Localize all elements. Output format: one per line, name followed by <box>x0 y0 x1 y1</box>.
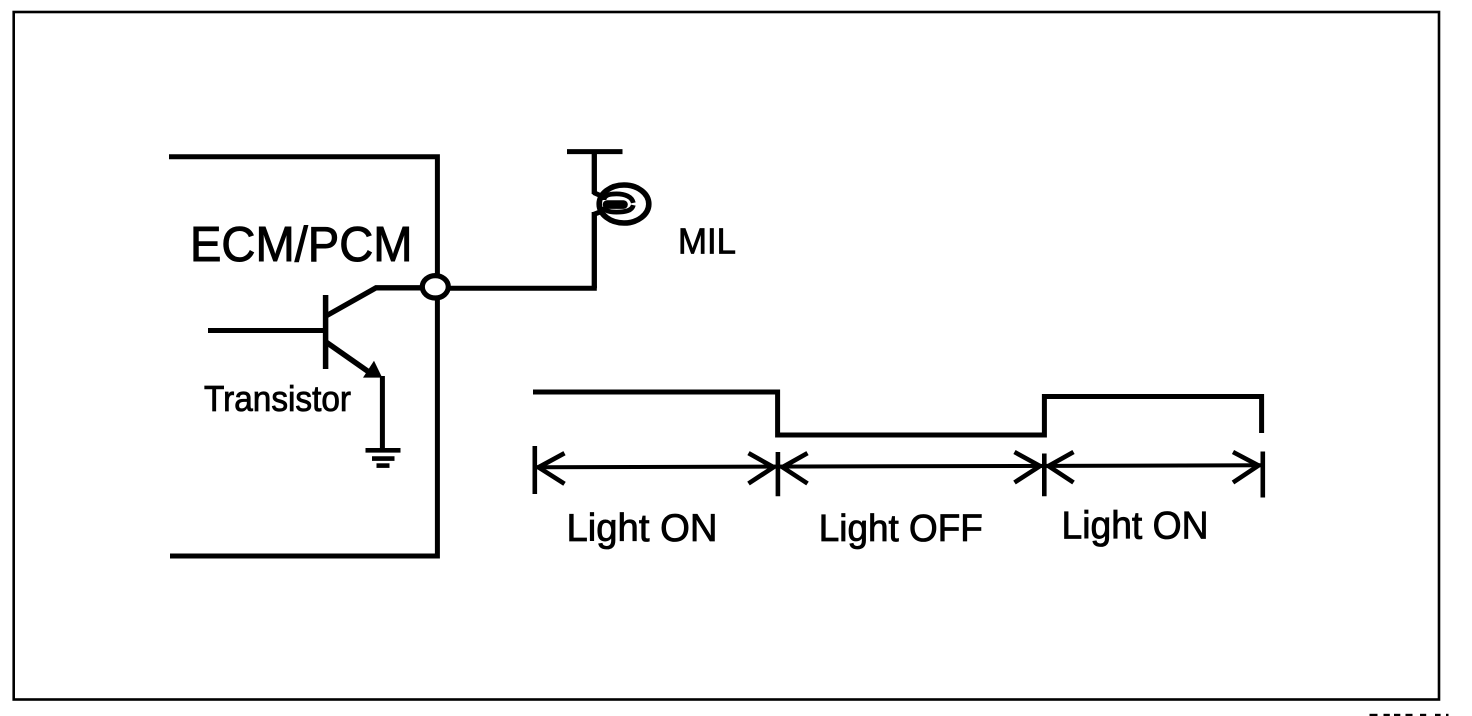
svg-text:Light ON: Light ON <box>567 507 718 550</box>
dimension line <box>536 465 1261 467</box>
wire emitter to ground <box>380 376 385 451</box>
tick 2 <box>776 452 781 496</box>
wire lamp vertical lower <box>592 212 597 288</box>
svg-text:Light OFF: Light OFF <box>819 508 983 550</box>
transistor Q1 emitter arrowhead <box>363 361 382 378</box>
wire lamp vertical upper <box>592 152 597 194</box>
arrowhead pair at tick 2 <box>749 453 774 483</box>
tick 3 <box>1042 454 1047 497</box>
waveform trace <box>533 392 1262 435</box>
wire stub to lamp top-left <box>594 193 603 197</box>
ground symbol <box>366 450 401 465</box>
lamp filament lower lobe <box>604 205 633 212</box>
arrowhead left of segment 1 <box>539 453 565 484</box>
clipped figure number bottom right <box>1370 714 1449 716</box>
lamp MIL bulb outer <box>599 185 649 223</box>
transistor Q1 emitter lead <box>326 342 371 374</box>
svg-text:MIL: MIL <box>678 221 736 262</box>
node junction circle <box>422 276 448 298</box>
svg-text:Light ON: Light ON <box>1062 504 1209 547</box>
wire stub to lamp bottom-left <box>594 211 603 215</box>
tick 4 <box>1261 452 1266 498</box>
wire node to lamp (horizontal) <box>440 286 597 291</box>
tick 1 <box>532 446 537 494</box>
lamp filament upper lobe <box>604 194 633 203</box>
power rail bar above lamp <box>567 149 623 154</box>
svg-text:ECM/PCM: ECM/PCM <box>190 218 413 272</box>
transistor Q1 collector lead <box>326 288 427 316</box>
arrowhead pair at tick 3 <box>1015 452 1041 483</box>
svg-text:Transistor: Transistor <box>204 378 351 419</box>
arrowhead right of segment 3 <box>1233 452 1259 483</box>
ECM/PCM block outline <box>169 157 437 556</box>
transistor Q1 base lead wire <box>208 328 326 333</box>
lamp filament bar <box>607 200 624 209</box>
transistor Q1 base bar <box>323 295 329 369</box>
